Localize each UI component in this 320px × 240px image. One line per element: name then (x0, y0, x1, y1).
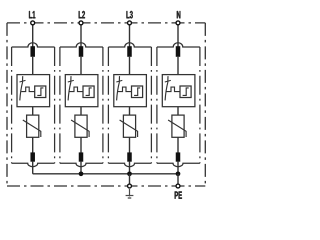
wire varistor to bottom contact L1 (32, 137, 34, 152)
wire bottom contact to PE bus L2 (80, 162, 82, 174)
thermal disconnector with status indicator U3 (L3) (114, 75, 147, 107)
plug-in contact bottom N (176, 152, 181, 161)
plug-in contact bottom L1 (30, 152, 35, 161)
wire top contact to disconnector L1 (32, 57, 34, 75)
varistor RV3 (L3) (120, 115, 138, 137)
thermal disconnector with status indicator U2 (L2) (65, 75, 98, 107)
junction node N-bus (176, 171, 181, 176)
wire L1 terminal to top contact (32, 25, 34, 47)
wire bottom contact to PE bus L3 (129, 162, 131, 174)
varistor RV2 (L2) (71, 115, 89, 137)
protection module boundary box L2 (dash-dot) (60, 43, 103, 167)
label L3 (126, 11, 132, 18)
plug-in contact top N (176, 46, 181, 57)
terminal L1 (31, 21, 35, 25)
wire bottom contact to PE bus N (177, 162, 179, 174)
device enclosure border top (dash-dot) (7, 22, 205, 24)
varistor RV1 (L1) (23, 115, 41, 137)
plug-in contact top L1 (30, 46, 35, 57)
wire disconnector to varistor L2 (80, 107, 82, 116)
wire top contact to disconnector L2 (80, 57, 82, 75)
protection module boundary box L1 (dash-dot) (12, 43, 55, 167)
label N (177, 11, 180, 18)
wire L2 terminal to top contact (80, 25, 82, 47)
thermal disconnector with status indicator U4 (N) (162, 75, 195, 107)
protection module boundary box N (dash-dot) (157, 43, 200, 167)
varistor RV4 (N) (168, 115, 186, 137)
device enclosure border right (dash-dot) (204, 23, 206, 186)
terminal L3 (128, 21, 132, 25)
protection module boundary box L3 (dash-dot) (108, 43, 151, 167)
PE bus wire (33, 173, 178, 175)
device enclosure border bottom (dash-dot) (7, 185, 205, 187)
wire disconnector to varistor L3 (129, 107, 131, 116)
device enclosure border left (dash-dot) (6, 23, 8, 186)
wire top contact to disconnector N (177, 57, 179, 75)
terminal N (176, 21, 180, 25)
wire L3 terminal to top contact (129, 25, 131, 47)
wire bottom contact to PE bus L1 (32, 162, 34, 174)
wire N terminal to top contact (177, 25, 179, 47)
terminal PE (176, 184, 180, 188)
wire disconnector to varistor N (177, 107, 179, 116)
plug-in contact top L2 (79, 46, 84, 57)
label L2 (79, 11, 85, 18)
wire varistor to bottom contact N (177, 137, 179, 152)
wire varistor to bottom contact L3 (129, 137, 131, 152)
thermal disconnector with status indicator U1 (L1) (17, 75, 50, 107)
wire bus to earth terminal (129, 174, 131, 186)
junction node L2-bus (79, 171, 84, 176)
wire varistor to bottom contact L2 (80, 137, 82, 152)
plug-in contact bottom L2 (79, 152, 84, 161)
wire bus to PE terminal (177, 174, 179, 186)
plug-in contact bottom L3 (127, 152, 132, 161)
earth terminal circle (128, 184, 132, 188)
plug-in contact top L3 (127, 46, 132, 57)
wire top contact to disconnector L3 (129, 57, 131, 75)
terminal L2 (79, 21, 83, 25)
label PE (175, 191, 182, 198)
ground symbol (126, 189, 134, 198)
wire disconnector to varistor L1 (32, 107, 34, 116)
junction node L3-bus (127, 171, 132, 176)
label L1 (29, 11, 35, 18)
